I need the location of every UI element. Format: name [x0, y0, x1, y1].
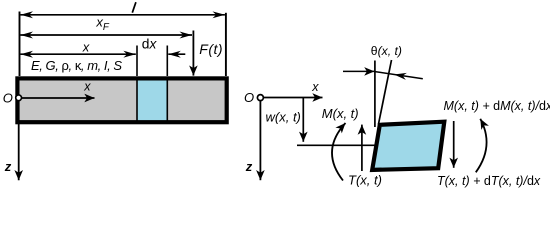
svg-text:w(x, t): w(x, t) [266, 110, 301, 125]
shear T(x,t) arrow (up) [361, 125, 363, 171]
element edge right in beam [166, 77, 168, 123]
svg-text:z: z [245, 159, 253, 174]
svg-text:M(x, t): M(x, t) [322, 106, 359, 121]
svg-text:M(x, t) + dM(x, t)/dx: M(x, t) + dM(x, t)/dx [444, 99, 550, 113]
x axis (right) [264, 97, 323, 99]
svg-text:z: z [4, 159, 12, 174]
horizontal reference line to element [297, 144, 384, 146]
svg-text:T(x, t): T(x, t) [348, 172, 382, 187]
dx dimension arrow (points left at element right edge) [168, 53, 185, 55]
svg-text:F(t): F(t) [199, 41, 223, 57]
svg-text:x: x [311, 80, 319, 94]
origin marker O (left) [16, 95, 22, 101]
moment M+dM arc [476, 119, 487, 173]
x axis arrow on beam [22, 97, 95, 99]
origin marker O (right) [257, 95, 263, 101]
beam element (cyan parallelogram) [372, 122, 444, 170]
element edge left in beam [136, 77, 138, 123]
svg-text:T(x, t) + dT(x, t)/dx: T(x, t) + dT(x, t)/dx [437, 174, 541, 188]
svg-text:x: x [82, 39, 90, 54]
theta horizontal arrow [343, 70, 374, 72]
svg-text:dx: dx [142, 36, 158, 51]
beam outline (thick) [17, 78, 226, 122]
label l [132, 2, 136, 13]
svg-text:O: O [244, 90, 254, 105]
dimension line l [21, 14, 225, 16]
svg-text:O: O [3, 91, 13, 106]
element extension line right [166, 46, 168, 77]
element extension line left [136, 46, 138, 77]
svg-text:x: x [83, 80, 91, 94]
moment M(x,t) arc [332, 123, 346, 181]
dimension line xF [21, 34, 193, 36]
shear T+dT arrow (down) [453, 121, 455, 168]
svg-text:E, G, ρ, κ, m, I, S: E, G, ρ, κ, m, I, S [31, 58, 122, 73]
svg-text:θ(x, t): θ(x, t) [371, 44, 402, 58]
theta slope arrowhead [394, 75, 410, 77]
extension line left (wall face) [19, 12, 21, 77]
z axis (left) [18, 101, 20, 180]
extension line right (beam free end) [225, 13, 227, 76]
z axis (right) [259, 101, 261, 180]
beam body [17, 78, 226, 122]
beam element dx strip (cyan) [137, 78, 167, 122]
deflection w(x,t) arrow [302, 98, 304, 142]
force F(t) arrow [192, 31, 194, 76]
rotated section line [378, 60, 391, 125]
dimension line x [21, 53, 136, 55]
vertical reference line (undeformed section) [374, 61, 376, 128]
theta slope line [375, 72, 423, 79]
